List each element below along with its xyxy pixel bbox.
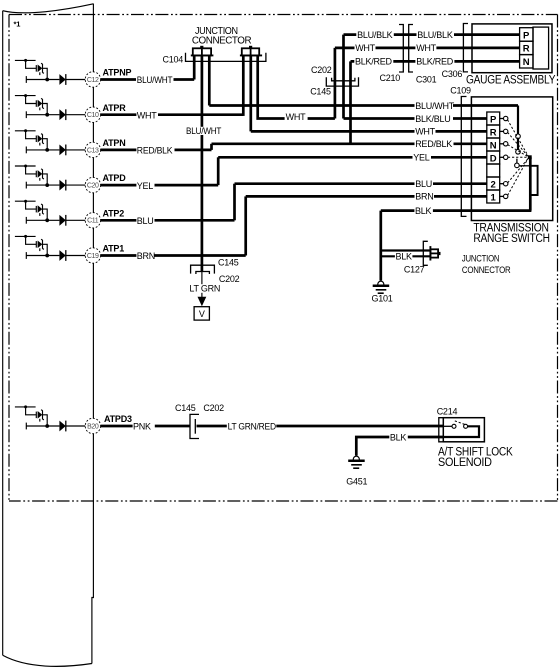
svg-text:C202: C202	[311, 65, 332, 75]
svg-text:C10: C10	[87, 112, 99, 119]
solenoid switch contact left	[443, 424, 456, 428]
svg-text:ATPD3: ATPD3	[104, 414, 132, 424]
svg-text:G101: G101	[372, 294, 393, 304]
svg-text:WHT: WHT	[415, 127, 435, 137]
wire BLU/WHT row to range switch	[209, 104, 518, 107]
wire BLU/WHT common riser inside switch	[517, 106, 519, 150]
wire BLK down to G101	[379, 211, 382, 281]
wire BLK/BLU row to range switch	[344, 117, 487, 120]
svg-text:WHT: WHT	[416, 43, 436, 53]
wire WHT leg C104 to ATPR row	[242, 55, 245, 116]
label BLK/BLU at range switch	[415, 114, 454, 124]
label YEL at range switch	[413, 153, 432, 163]
wire BLK/RED riser	[349, 61, 352, 145]
label JUNCTION CONNECTOR (C104)	[192, 26, 252, 46]
connector bracket C109	[461, 97, 466, 217]
wire BLU/BLK riser	[342, 35, 345, 119]
wire BRN ATP1	[155, 254, 246, 257]
svg-text:ATPN: ATPN	[103, 138, 126, 148]
wire RED/BLK ATPN	[101, 149, 137, 152]
inline connector C202 male (top)	[332, 78, 355, 81]
wire LT GRN down	[201, 272, 203, 298]
wire YEL ATPD	[155, 184, 219, 187]
label BLU/WHT vertical wire	[186, 126, 222, 136]
svg-text:B20: B20	[87, 423, 99, 430]
label LT GRN/RED	[227, 421, 277, 431]
svg-text:C214: C214	[437, 406, 458, 416]
wire YEL ATPD turn up	[217, 157, 220, 185]
wire common to BLK row	[529, 157, 532, 210]
wire BLU/WHT ATPNP	[101, 78, 136, 81]
label JUNCTION CONNECTOR (C127)	[462, 254, 511, 276]
label BLU/BLK left	[356, 30, 394, 40]
svg-text:C145: C145	[218, 257, 239, 267]
svg-text:RED/BLK: RED/BLK	[415, 139, 452, 149]
inline connector C145 female (ATPD3)	[190, 414, 199, 438]
svg-text:GAUGE ASSEMBLY: GAUGE ASSEMBLY	[466, 75, 556, 87]
svg-text:P: P	[523, 30, 530, 41]
junction connector C104 left joint	[191, 46, 214, 56]
transmission range switch box	[471, 97, 552, 221]
junction connector C127 bracket	[423, 241, 428, 265]
range switch contact P	[500, 116, 508, 120]
junction connector C127 joint	[430, 246, 440, 260]
wire WHT row to range switch	[251, 130, 487, 133]
range switch position box blank	[487, 164, 500, 177]
svg-text:BLU: BLU	[137, 216, 154, 226]
svg-text:BLK/BLU: BLK/BLU	[415, 114, 450, 124]
svg-text:C127: C127	[404, 265, 425, 275]
label A/T SHIFT LOCK SOLENOID	[438, 447, 513, 470]
svg-text:C145: C145	[310, 87, 331, 97]
wire BLU ATP2	[155, 219, 235, 222]
switch moving contact circle	[515, 163, 520, 168]
svg-text:C202: C202	[219, 274, 240, 284]
svg-text:BLU: BLU	[415, 179, 432, 189]
svg-text:JUNCTION: JUNCTION	[462, 254, 500, 265]
wire BLK/RED to gauge N	[351, 60, 520, 63]
svg-text:N: N	[523, 57, 530, 68]
wire BLK upper leg to C127	[381, 249, 431, 251]
label BLK row	[414, 206, 433, 216]
svg-text:ATP1: ATP1	[103, 244, 125, 254]
label BLU/WHT at range switch	[415, 101, 455, 111]
solenoid internal wire	[443, 426, 479, 437]
svg-text:N: N	[490, 140, 497, 151]
svg-text:RANGE SWITCH: RANGE SWITCH	[473, 233, 549, 245]
svg-text:ATP2: ATP2	[103, 208, 125, 218]
dash-dot boundary left	[8, 15, 10, 502]
wire PNK ATPD3	[101, 425, 133, 428]
dashed wiper path N	[508, 145, 528, 157]
wire WHT ATPR	[158, 113, 243, 116]
svg-text:C109: C109	[450, 86, 471, 96]
ECM driver symbol row ATP2	[15, 200, 86, 226]
svg-text:BLU/WHT: BLU/WHT	[137, 75, 173, 85]
wire BRN row to range switch	[246, 195, 487, 198]
svg-text:CONNECTOR: CONNECTOR	[192, 35, 252, 46]
label LT GRN	[189, 284, 221, 294]
wire RED/BLK row to range switch	[212, 142, 487, 145]
label BLU/BLK right	[417, 30, 455, 40]
wire PNK to C145	[155, 425, 190, 428]
svg-text:C12: C12	[87, 77, 99, 84]
svg-text:C210: C210	[380, 73, 401, 83]
svg-text:V: V	[199, 309, 205, 319]
wire BRN ATP1	[101, 254, 137, 257]
svg-text:ATPD: ATPD	[103, 173, 127, 183]
range switch position box N	[487, 138, 500, 151]
switch common contact circle upper	[516, 134, 521, 139]
svg-text:BLK/RED: BLK/RED	[416, 57, 454, 67]
label RED/BLK at range switch	[415, 139, 454, 149]
inline connector C202 male (ATPD3)	[194, 419, 196, 434]
range switch contact 1	[500, 194, 508, 198]
ECM harness band top torn edge	[3, 4, 94, 13]
gauge assembly box	[472, 24, 552, 73]
switch wiper pivot	[528, 155, 532, 159]
dashed wiper path R	[508, 132, 528, 156]
svg-text:BLK: BLK	[396, 252, 413, 262]
connector bracket C301	[409, 25, 413, 73]
label BLK/RED left	[354, 57, 393, 67]
svg-text:C20: C20	[87, 183, 99, 190]
svg-text:P: P	[490, 114, 497, 125]
svg-text:2: 2	[491, 179, 496, 190]
dashed wiper path P	[508, 120, 529, 157]
svg-text:LT GRN/RED: LT GRN/RED	[228, 421, 277, 431]
wire BLU/BLK to gauge P	[344, 33, 520, 36]
connector circle B20	[85, 418, 100, 433]
label BLK at C127	[395, 252, 413, 262]
svg-text:RED/BLK: RED/BLK	[137, 146, 173, 156]
wire BLU/WHT leg C104 to range switch	[208, 55, 211, 105]
solenoid switch blade dashed	[455, 421, 467, 425]
connector circle C12	[85, 72, 100, 87]
wire YEL ATPD	[101, 184, 137, 187]
svg-text:R: R	[490, 127, 497, 138]
svg-text:WHT: WHT	[355, 43, 375, 53]
ground G101	[372, 281, 393, 303]
wire BLU/WHT leg C104 to ATPNP	[193, 55, 196, 79]
dashed wiper path D	[508, 156, 528, 158]
wire YEL row to range switch	[218, 156, 487, 159]
gauge pin box P	[520, 28, 533, 42]
svg-text:C202: C202	[203, 403, 224, 413]
switch moving contact link	[519, 165, 530, 167]
range switch position box R	[487, 125, 500, 138]
connector circle C11	[85, 213, 100, 228]
range switch position box D	[487, 151, 500, 164]
range switch contact N	[500, 142, 508, 146]
label BLK/RED right	[415, 57, 454, 67]
solenoid switch contact right	[464, 424, 468, 428]
svg-text:C19: C19	[87, 253, 99, 260]
connector circle C13	[85, 142, 100, 157]
svg-text:ATPNP: ATPNP	[103, 68, 132, 78]
gauge pin box R	[520, 41, 533, 55]
svg-text:BRN: BRN	[137, 251, 155, 261]
wire WHT riser to gauge	[334, 48, 337, 119]
svg-text:BLU/BLK: BLU/BLK	[417, 30, 453, 40]
wire BLK lower leg to C127	[381, 255, 431, 257]
wire BLK row	[381, 209, 532, 212]
terminal box V	[194, 307, 209, 320]
svg-text:R: R	[523, 44, 530, 55]
arrow to V terminal	[198, 297, 207, 307]
svg-text:SOLENOID: SOLENOID	[438, 457, 492, 469]
label WHT at range switch	[415, 127, 436, 137]
ECM driver symbol row ATPD	[15, 165, 86, 191]
range switch position box 2	[487, 177, 500, 190]
svg-text:YEL: YEL	[137, 181, 154, 191]
label BRN at range switch	[415, 192, 435, 202]
wire BRN ATP1 turn up	[244, 196, 247, 255]
A/T shift lock solenoid box	[443, 418, 484, 442]
svg-text:BLK: BLK	[390, 432, 407, 442]
range switch contact D	[500, 155, 508, 159]
connector circle C20	[85, 177, 100, 192]
svg-text:BLU/WHT: BLU/WHT	[415, 101, 455, 111]
junction connector C104 right joint	[240, 46, 262, 56]
dashed wiper path 1	[508, 158, 529, 195]
svg-text:YEL: YEL	[413, 153, 430, 163]
wire WHT leg C104 to gauge riser	[258, 55, 335, 118]
dash-dot boundary top	[9, 14, 558, 16]
svg-text:BRN: BRN	[415, 192, 433, 202]
switch common contact circle lower	[516, 150, 521, 155]
switch moving contact stem	[516, 159, 518, 163]
range switch contact R	[500, 129, 508, 133]
svg-text:C301: C301	[416, 74, 437, 84]
inline connector C145 female (to V)	[191, 265, 215, 273]
svg-text:C104: C104	[163, 55, 184, 65]
wire BLU row to range switch	[235, 182, 487, 185]
svg-text:C11: C11	[87, 218, 99, 225]
dash-dot boundary bottom	[9, 500, 558, 502]
label BLU at range switch	[415, 179, 434, 189]
svg-text:1: 1	[491, 192, 497, 203]
gauge pin box N	[520, 55, 533, 69]
ground G451	[346, 456, 367, 486]
wire BLU/WHT ATPNP	[174, 78, 195, 81]
svg-text:LT GRN: LT GRN	[189, 284, 220, 294]
wire RED/BLK ATPN	[175, 149, 212, 152]
ECM harness band bottom torn edge	[3, 655, 92, 666]
inline connector C145 female (top)	[326, 77, 358, 86]
wire WHT ATPR	[101, 113, 137, 116]
ECM driver symbol row ATPN	[15, 129, 86, 155]
ECM driver symbol row ATPNP	[15, 59, 86, 85]
range switch position box 1	[487, 190, 500, 203]
svg-text:D: D	[490, 153, 497, 164]
connector bracket C214	[439, 418, 444, 442]
wire LT GRN/RED	[197, 425, 444, 428]
switch common loop	[530, 166, 537, 195]
connector bracket C210	[399, 25, 403, 73]
wire BLK solenoid to G451	[356, 437, 443, 456]
dash-dot boundary right	[557, 15, 559, 502]
inline connector C202 male (to V)	[196, 272, 210, 275]
label TRANSMISSION RANGE SWITCH	[473, 223, 549, 245]
svg-text:C13: C13	[87, 147, 99, 154]
svg-text:BLU/BLK: BLU/BLK	[357, 30, 393, 40]
label WHT mid row	[285, 112, 308, 122]
svg-text:BLU/WHT: BLU/WHT	[186, 126, 222, 136]
svg-text:*1: *1	[14, 19, 21, 28]
svg-text:C306: C306	[442, 69, 463, 79]
gauge inner box	[533, 27, 549, 69]
connector circle C19	[85, 248, 100, 263]
wire BLU/WHT vertical C104 down to C145	[201, 55, 204, 271]
svg-text:G451: G451	[346, 476, 367, 486]
ECM driver symbol row ATP1	[15, 235, 86, 261]
wire WHT leg C104 down to switch WHT row	[249, 55, 252, 131]
range switch contact 2	[500, 182, 508, 186]
svg-text:PNK: PNK	[133, 422, 151, 432]
connector bracket C306	[463, 24, 468, 72]
ECM driver symbol row ATPR	[15, 94, 86, 120]
range switch position box P	[487, 112, 500, 125]
wire BLU ATP2	[101, 219, 137, 222]
label WHT right	[415, 43, 436, 53]
label WHT left	[355, 43, 376, 53]
wire RED/BLK ATPN turn up	[210, 144, 213, 150]
ECM harness band left edge	[2, 11, 4, 656]
svg-text:C145: C145	[175, 403, 196, 413]
svg-text:WHT: WHT	[286, 112, 306, 122]
junction connector C104 bracket	[186, 53, 266, 62]
wire WHT to gauge R	[335, 47, 520, 50]
label BLK solenoid	[389, 432, 408, 442]
ECM driver symbol row ATPD3	[15, 405, 86, 431]
connector circle C10	[85, 107, 100, 122]
svg-text:WHT: WHT	[137, 110, 157, 120]
svg-text:ATPR: ATPR	[103, 103, 127, 113]
svg-text:BLK: BLK	[415, 206, 432, 216]
dashed wiper path 2	[508, 158, 529, 182]
svg-text:BLK/RED: BLK/RED	[355, 57, 393, 67]
svg-text:CONNECTOR: CONNECTOR	[462, 265, 511, 276]
wire BLU ATP2 turn up	[233, 184, 236, 221]
ECM harness band right edge	[92, 4, 94, 664]
